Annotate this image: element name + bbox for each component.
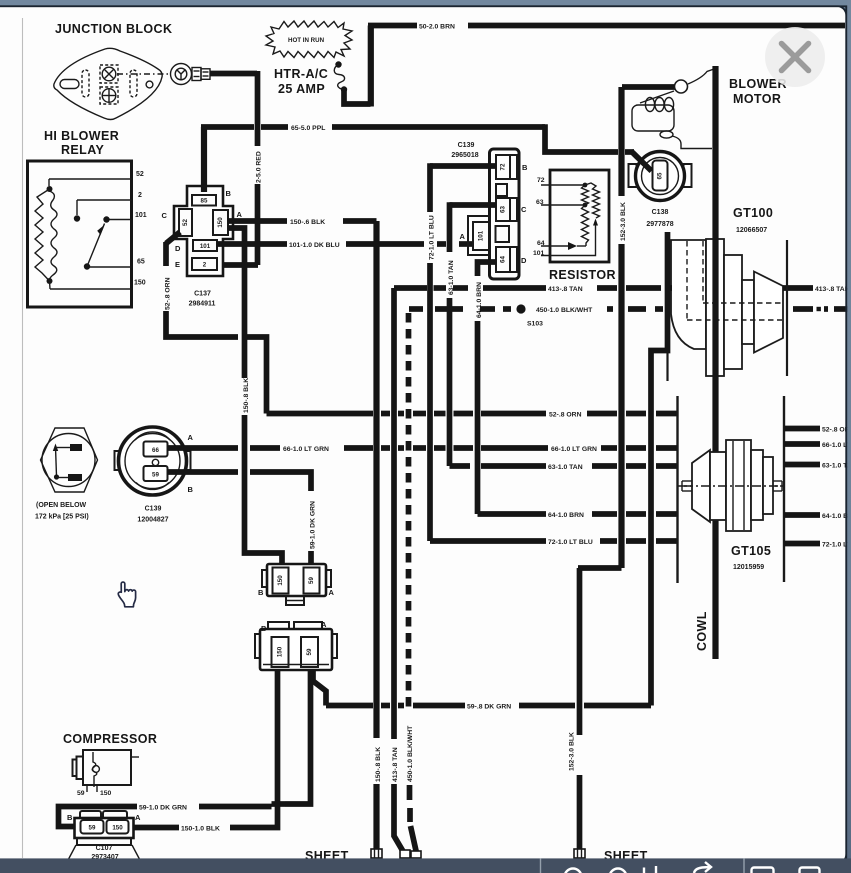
svg-text:150: 150 — [217, 217, 224, 228]
svg-text:413-.8 TAN: 413-.8 TAN — [548, 286, 583, 293]
svg-text:150: 150 — [100, 790, 112, 797]
C137 pin boxes — [192, 195, 216, 206]
svg-text:A: A — [321, 620, 327, 629]
blower motor — [632, 69, 787, 149]
wire 59-1.0 DK GRN to compressor — [59, 670, 311, 827]
svg-text:101-1.0 DK BLU: 101-1.0 DK BLU — [289, 242, 340, 249]
svg-text:C139: C139 — [458, 142, 475, 149]
ring terminal — [171, 64, 211, 85]
svg-text:A: A — [329, 588, 335, 597]
svg-text:C: C — [521, 205, 527, 214]
svg-text:A: A — [135, 813, 141, 822]
svg-text:59-.8 DK GRN: 59-.8 DK GRN — [467, 704, 511, 711]
wire 450-1.0 BLK/WHT dash-dot — [407, 304, 848, 853]
GT105 grommet — [678, 440, 783, 571]
svg-text:64-1.0 BRN: 64-1.0 BRN — [476, 282, 483, 318]
close button — [765, 27, 825, 87]
svg-text:2-5.0 RED: 2-5.0 RED — [256, 151, 263, 183]
svg-text:72-1.0 LT BLU: 72-1.0 LT BLU — [428, 215, 435, 260]
wire over GT100 plate — [712, 236, 718, 376]
svg-text:150-1.0 BLK: 150-1.0 BLK — [181, 826, 220, 833]
svg-text:HOT IN RUN: HOT IN RUN — [288, 37, 325, 44]
svg-text:GT100: GT100 — [733, 206, 773, 220]
svg-text:65-5.0 PPL: 65-5.0 PPL — [291, 125, 325, 132]
wire 150-1.0 BLK to compressor — [130, 670, 278, 833]
svg-text:150-.8 BLK: 150-.8 BLK — [375, 747, 382, 782]
svg-text:50-2.0 BRN: 50-2.0 BRN — [419, 23, 455, 30]
svg-text:66-1.0 LT GRN: 66-1.0 LT GRN — [283, 446, 329, 453]
svg-text:2977878: 2977878 — [646, 221, 673, 228]
svg-text:COMPRESSOR: COMPRESSOR — [63, 732, 157, 746]
svg-text:HTR-A/C: HTR-A/C — [274, 67, 328, 81]
sheet end connectors — [371, 849, 585, 858]
svg-text:52: 52 — [136, 171, 144, 178]
svg-text:63: 63 — [500, 206, 507, 213]
right cowl stubs — [784, 426, 851, 548]
wire 52-.8 ORN — [164, 242, 677, 419]
wire 413-.8 TAN — [392, 286, 850, 853]
inline connector lower half — [255, 620, 337, 670]
pressure switch hexagon — [35, 428, 98, 521]
svg-text:25 AMP: 25 AMP — [278, 82, 325, 96]
connector C139 2965018 — [451, 142, 528, 279]
top strip — [0, 0, 851, 5]
svg-text:450-1.0 BLK/WHT: 450-1.0 BLK/WHT — [407, 725, 414, 782]
wire 2-5.0 RED — [210, 71, 257, 77]
svg-text:64-1.0 BRN: 64-1.0 BRN — [548, 512, 584, 519]
svg-text:12015959: 12015959 — [733, 564, 764, 571]
svg-text:66: 66 — [152, 447, 159, 454]
svg-text:59-1.0 DK GRN: 59-1.0 DK GRN — [139, 805, 187, 812]
svg-text:D: D — [521, 256, 527, 265]
svg-text:2: 2 — [203, 262, 207, 269]
cowl panel lines — [666, 352, 668, 381]
connector C107 — [67, 811, 141, 862]
svg-text:101: 101 — [200, 243, 211, 250]
svg-text:152-3.0 BLK: 152-3.0 BLK — [569, 732, 576, 771]
svg-text:413-.8 TAN: 413-.8 TAN — [392, 747, 399, 782]
wire 72-1.0 LT BLU — [428, 163, 677, 546]
wire 152-3.0 BLK — [569, 87, 677, 849]
svg-text:B: B — [188, 485, 194, 494]
svg-text:152-3.0 BLK: 152-3.0 BLK — [620, 202, 627, 241]
wire blower ground down to 59 bus — [651, 232, 668, 706]
svg-text:65: 65 — [657, 172, 664, 179]
svg-text:150-.6 BLK: 150-.6 BLK — [290, 219, 325, 226]
svg-text:59: 59 — [89, 825, 96, 832]
svg-text:59: 59 — [152, 471, 159, 478]
svg-text:101: 101 — [478, 230, 485, 241]
wire 59-1.0 DK GRN upper — [168, 472, 317, 564]
svg-text:66-1.0 LT GRN: 66-1.0 LT GRN — [551, 446, 597, 453]
svg-text:C138: C138 — [652, 209, 669, 216]
svg-text:59-1.0 DK GRN: 59-1.0 DK GRN — [309, 501, 316, 549]
wire 63-1.0 TAN — [448, 202, 677, 471]
resistor block — [533, 170, 616, 282]
svg-text:RESISTOR: RESISTOR — [549, 268, 616, 282]
svg-text:101: 101 — [135, 212, 147, 219]
svg-text:B: B — [261, 624, 267, 633]
svg-text:E: E — [175, 260, 180, 269]
svg-text:150: 150 — [277, 646, 284, 657]
svg-text:JUNCTION BLOCK: JUNCTION BLOCK — [55, 22, 172, 36]
svg-text:MOTOR: MOTOR — [733, 92, 781, 106]
wire 65-5.0 PPL — [201, 127, 207, 192]
wire blower motor down through GT100 — [712, 66, 718, 236]
svg-text:59: 59 — [77, 790, 85, 797]
svg-text:12066507: 12066507 — [736, 227, 767, 234]
svg-text:A: A — [237, 210, 243, 219]
svg-text:64: 64 — [500, 256, 507, 263]
wire 66-1.0 LT GRN — [168, 446, 678, 453]
svg-text:C: C — [162, 211, 168, 220]
connector C138 2977878 — [629, 151, 692, 228]
svg-text:172 kPa [25 PSI): 172 kPa [25 PSI) — [35, 514, 89, 521]
svg-text:COWL: COWL — [695, 611, 709, 651]
wire fuse to top bus — [344, 90, 371, 105]
svg-text:65: 65 — [137, 259, 145, 266]
svg-text:S103: S103 — [527, 321, 543, 328]
svg-text:(OPEN BELOW: (OPEN BELOW — [36, 502, 87, 509]
svg-text:GT105: GT105 — [731, 544, 771, 558]
svg-text:150: 150 — [112, 825, 123, 832]
hot in run starburst — [266, 21, 352, 58]
svg-text:2984911: 2984911 — [189, 301, 216, 308]
svg-text:450-1.0 BLK/WHT: 450-1.0 BLK/WHT — [536, 307, 593, 314]
wire 150 to inline connector — [228, 228, 282, 564]
svg-text:HI BLOWER: HI BLOWER — [44, 129, 119, 143]
svg-text:C137: C137 — [194, 291, 211, 298]
inline connector upper half — [258, 564, 335, 605]
wire 65 PPL into connector — [631, 151, 652, 171]
svg-text:72-1.0 LT BLU: 72-1.0 LT BLU — [548, 539, 593, 546]
connector C139 12004827 — [115, 427, 194, 524]
svg-text:150-.8 BLK: 150-.8 BLK — [243, 378, 250, 413]
svg-text:85: 85 — [201, 198, 208, 205]
wire 64-1.0 BRN — [476, 262, 677, 519]
svg-text:C107: C107 — [96, 845, 113, 852]
svg-text:150: 150 — [277, 575, 284, 586]
svg-text:63-1.0 TAN: 63-1.0 TAN — [548, 464, 583, 471]
compressor — [63, 732, 157, 797]
wire 59-.8 DK GRN branch — [313, 670, 651, 711]
svg-text:59: 59 — [308, 577, 315, 584]
svg-text:B: B — [226, 189, 232, 198]
relay internals — [35, 179, 132, 289]
svg-text:52-.8 ORN: 52-.8 ORN — [549, 412, 582, 419]
svg-text:52: 52 — [182, 219, 189, 226]
svg-text:12004827: 12004827 — [137, 517, 168, 524]
wire 101-1.0 DK BLU — [217, 242, 473, 249]
svg-text:2965018: 2965018 — [451, 152, 478, 159]
svg-text:B: B — [258, 588, 264, 597]
svg-text:52-.8 ORN: 52-.8 ORN — [164, 277, 171, 310]
svg-text:2: 2 — [138, 192, 142, 199]
svg-text:413-.8 TAN: 413-.8 TAN — [815, 286, 850, 293]
connector C137 outline — [174, 186, 233, 276]
wire 150-.6 BLK — [228, 219, 382, 849]
svg-text:RELAY: RELAY — [61, 143, 104, 157]
bottom toolbar — [0, 858, 851, 873]
wire 50-2.0 BRN top — [368, 23, 417, 29]
svg-text:A: A — [188, 433, 194, 442]
junction block body — [54, 48, 162, 119]
svg-text:150: 150 — [134, 280, 146, 287]
svg-text:72: 72 — [537, 177, 545, 184]
svg-text:B: B — [522, 163, 528, 172]
dash-dot link to ring terminal — [117, 73, 168, 75]
svg-text:59: 59 — [306, 648, 313, 655]
mouse hand cursor — [118, 582, 135, 607]
svg-text:C139: C139 — [145, 506, 162, 513]
svg-text:A: A — [460, 232, 466, 241]
relay box — [28, 161, 132, 307]
svg-text:D: D — [175, 244, 181, 253]
GT100 grommet — [671, 206, 783, 376]
wire 52-.8 ORN diagonal from pin C — [166, 232, 180, 244]
svg-text:72: 72 — [500, 163, 507, 170]
svg-text:B: B — [67, 813, 73, 822]
